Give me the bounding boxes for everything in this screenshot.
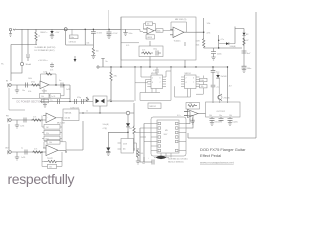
wire bbd out — [184, 112, 193, 129]
DC power jack J1 — [9, 28, 16, 36]
svg-text:16 16V: 16 16V — [97, 33, 103, 35]
svg-text:100n(B): 100n(B) — [103, 124, 109, 126]
wire 9V rail2 — [99, 66, 228, 68]
svg-text:4.9k: 4.9k — [28, 91, 31, 93]
svg-text:OUT 9V2: OUT 9V2 — [217, 111, 226, 113]
resistor R7 bbd in — [129, 125, 135, 151]
capacitor C10 1u/35 — [20, 118, 26, 128]
wire box edge drop — [120, 17, 122, 67]
diode D1 1N4007 — [40, 29, 60, 38]
svg-text:4.7k: 4.7k — [207, 33, 211, 35]
op-amp U2a — [143, 28, 154, 35]
svg-text:100n: 100n — [129, 33, 133, 35]
svg-text:100n: 100n — [217, 54, 221, 56]
feedback wire U2b — [171, 22, 187, 32]
svg-text:3007: 3007 — [164, 134, 168, 136]
feedback stack U9 — [42, 152, 62, 169]
wire lfo left branch — [108, 132, 128, 148]
svg-text:1k: 1k — [38, 36, 40, 38]
wire clock feed upper — [121, 29, 143, 31]
wire lfo branch — [196, 18, 204, 39]
svg-text:47k: 47k — [114, 76, 117, 78]
svg-text:470k: 470k — [31, 82, 35, 84]
svg-text:1u0: 1u0 — [142, 163, 145, 165]
bbd section box — [151, 117, 186, 156]
op-amp U1a input amp — [40, 81, 49, 92]
feedback resistors stack U1b — [42, 116, 62, 141]
wire right drop 4k7 — [227, 66, 232, 103]
feedback boxes under U1a — [40, 85, 65, 103]
wire output row — [198, 113, 206, 115]
wire right outer — [255, 12, 257, 138]
wire adapter stub faint — [108, 10, 110, 29]
voltage regulator U5 78L05 — [66, 29, 78, 45]
node switch circle — [64, 28, 67, 31]
svg-text:Effect Pedal: Effect Pedal — [200, 153, 221, 158]
wire drop x85 — [85, 29, 90, 45]
svg-text:500R BIAS (CLOCK BAL): 500R BIAS (CLOCK BAL) — [168, 158, 188, 161]
svg-text:SAD512D (MN3205): SAD512D (MN3205) — [168, 160, 184, 163]
resistor R3 10k box — [146, 22, 153, 26]
capacitor C4 16V — [107, 29, 119, 39]
capacitor C12 — [148, 158, 154, 165]
svg-text:+: + — [47, 121, 48, 123]
wire pot to out row — [66, 121, 83, 150]
svg-text:MN 3101 (X): MN 3101 (X) — [175, 19, 187, 21]
capacitor C11 4.7u — [153, 67, 159, 75]
feedback loop U1a — [41, 71, 57, 85]
diode D9 to ground — [106, 148, 110, 156]
wire mod column — [218, 35, 224, 49]
wire mix row — [79, 111, 126, 114]
pin label boxes right of U4 — [196, 76, 207, 95]
svg-text:4u7: 4u7 — [247, 53, 251, 55]
lfo amp box — [118, 139, 137, 158]
svg-text:= 16V 470u +: = 16V 470u + — [38, 60, 48, 62]
svg-text:10k: 10k — [209, 115, 212, 117]
capacitor C6 10n — [22, 83, 28, 93]
wire divider underbus — [140, 67, 191, 100]
node rail junctions — [110, 66, 196, 67]
resistor R1 1k — [35, 29, 40, 44]
svg-text:1u(63): 1u(63) — [233, 122, 238, 124]
svg-text:4.7u: 4.7u — [216, 72, 219, 74]
svg-text:22k: 22k — [46, 133, 49, 135]
wire lfo row — [204, 47, 242, 49]
ground bottom left bbd — [136, 161, 145, 165]
op-amp U8 output — [184, 110, 198, 122]
svg-text:FB: FB — [6, 116, 9, 118]
input jack J2 — [6, 81, 11, 88]
svg-text:MN3101: MN3101 — [151, 73, 157, 75]
node dots signal rows — [41, 84, 111, 152]
pot wiper circle — [126, 111, 134, 115]
capacitor C14 — [242, 51, 252, 55]
svg-text:4: 4 — [152, 82, 153, 84]
svg-text:100k: 100k — [28, 78, 32, 80]
wire diode to mix — [99, 106, 101, 113]
svg-text:1.5k: 1.5k — [207, 23, 211, 25]
svg-text:2: 2 — [186, 78, 187, 80]
wire fuse branch — [11, 29, 22, 73]
labels right of clock box — [207, 23, 211, 35]
svg-text:10k: 10k — [129, 128, 132, 130]
svg-text:10k: 10k — [229, 115, 232, 117]
wire bottom clock bus — [140, 157, 152, 162]
IC U4 divider MN3101 — [181, 73, 200, 88]
ground input jack — [15, 85, 19, 93]
wire row2 — [9, 120, 46, 150]
capacitor C20 — [21, 148, 27, 160]
svg-text:1u/35: 1u/35 — [66, 89, 70, 91]
svg-text:10k: 10k — [201, 86, 204, 88]
svg-text:BR: BR — [246, 34, 249, 36]
svg-text:+: + — [148, 158, 149, 160]
svg-text:4: 4 — [186, 82, 187, 84]
wire bbd right drop — [187, 133, 189, 138]
capacitor C8 1u — [59, 80, 63, 88]
svg-text:MANUAL: MANUAL — [65, 112, 72, 115]
capacitor C3 16V — [91, 29, 103, 48]
label box under U2a — [146, 35, 155, 39]
svg-text:1u/35: 1u/35 — [21, 157, 25, 159]
capacitor C16 4.7u column — [211, 66, 220, 103]
resistor R10 47 — [243, 38, 250, 45]
9v tap — [101, 59, 107, 68]
LED D7 — [243, 29, 250, 37]
svg-text:-: - — [174, 30, 175, 32]
wire bbd bottom pins — [161, 153, 171, 158]
svg-text:470p: 470p — [77, 97, 81, 99]
resistor R5 47k — [110, 67, 117, 101]
svg-text:100k(A): 100k(A) — [230, 45, 236, 48]
feedback jack J2 — [6, 116, 11, 123]
feedback R12 output amp — [186, 103, 200, 110]
BBD pin stubs left — [151, 124, 157, 151]
capacitor C9 470p — [70, 97, 89, 110]
ground on clock line — [123, 29, 132, 35]
svg-text:DC POWER SECTION: DC POWER SECTION — [17, 100, 43, 103]
svg-text:4.7(F): 4.7(F) — [103, 128, 108, 130]
svg-text:100n: 100n — [247, 68, 251, 70]
wire clock feeds down — [140, 124, 144, 163]
svg-text:6: 6 — [160, 78, 161, 80]
oscillator sub-box — [139, 46, 163, 57]
svg-text:1u/35: 1u/35 — [20, 126, 24, 128]
svg-text:9V+: 9V+ — [1, 64, 4, 66]
svg-text:LM358: LM358 — [147, 37, 152, 39]
svg-text:MC1458: MC1458 — [57, 123, 65, 125]
label 100n(B) — [103, 124, 109, 130]
diode D5 — [126, 123, 130, 138]
svg-text:100p: 100p — [153, 49, 157, 51]
wire led branch — [235, 27, 244, 44]
ground output amp — [191, 118, 195, 125]
diode pair D3 D4 — [84, 96, 111, 106]
wire reg row — [66, 44, 94, 46]
wire clock feed lower — [121, 43, 139, 47]
BBD pin stubs right — [179, 124, 186, 151]
capacitor C1 470u branch — [26, 29, 30, 61]
svg-text:4.7k: 4.7k — [50, 70, 53, 72]
svg-text:10n: 10n — [22, 90, 25, 92]
transistor Q1 — [218, 94, 230, 103]
resistor R14 470k — [31, 82, 40, 87]
output jack J4 — [5, 148, 11, 155]
svg-text:4558: 4558 — [123, 144, 127, 146]
svg-text:TL072: TL072 — [47, 158, 54, 160]
svg-text:1u+: 1u+ — [50, 100, 53, 102]
annotation text block — [35, 47, 56, 52]
svg-text:10k: 10k — [147, 24, 150, 26]
wire bottom outer — [188, 137, 256, 139]
svg-text:100n: 100n — [70, 37, 74, 39]
clock section box — [121, 17, 196, 60]
svg-text:6: 6 — [193, 78, 194, 80]
ground out jack — [15, 152, 19, 160]
feedback box above U9 — [44, 140, 66, 153]
ground jack J2 — [15, 120, 19, 128]
wire into divider left — [135, 67, 147, 101]
svg-text:-: - — [47, 117, 48, 119]
capacitor C1b 470u 16V — [38, 60, 54, 72]
svg-text:2: 2 — [152, 78, 153, 80]
resistor R6 4.7k — [31, 117, 43, 122]
svg-text:1u/35: 1u/35 — [43, 71, 47, 73]
svg-text:10k: 10k — [41, 96, 44, 98]
svg-text:10n: 10n — [219, 115, 222, 117]
resistor R2 100 — [91, 48, 98, 59]
svg-text:1k: 1k — [43, 101, 45, 103]
wire clock to divider — [149, 41, 151, 67]
power section boundary — [9, 88, 70, 110]
wire +9V rail — [16, 28, 122, 30]
wire output jack row — [12, 151, 46, 153]
svg-text:DOD FX75 Flanger Guitar: DOD FX75 Flanger Guitar — [200, 147, 246, 152]
svg-text:TL062: TL062 — [42, 90, 49, 92]
svg-text:1N4148: 1N4148 — [221, 76, 227, 78]
svg-text:4k7: 4k7 — [229, 86, 232, 88]
svg-text:4.7k: 4.7k — [142, 50, 145, 52]
svg-text:MN3102: MN3102 — [150, 106, 156, 108]
svg-text:30mA: 30mA — [26, 63, 32, 66]
svg-text:10k: 10k — [189, 103, 192, 105]
wire row2 link down — [61, 118, 63, 142]
op-amp U2b — [170, 27, 184, 42]
svg-text:2SC945: 2SC945 — [224, 98, 230, 100]
svg-text:4.7u: 4.7u — [153, 70, 156, 72]
footer text respectfully — [8, 171, 75, 187]
wire mid row right — [107, 100, 134, 102]
wire input row — [12, 84, 40, 86]
svg-text:7: 7 — [160, 82, 161, 84]
svg-text:1k: 1k — [86, 111, 88, 113]
capacitor C13 100n — [211, 48, 221, 60]
svg-text:1u 35: 1u 35 — [51, 96, 55, 98]
svg-text:(B): (B) — [123, 149, 126, 151]
node out — [55, 84, 56, 85]
svg-text:+ 16V: + 16V — [55, 32, 60, 34]
svg-text:MN3101: MN3101 — [185, 73, 191, 75]
svg-text:10k: 10k — [49, 142, 52, 144]
bias trimmer blob — [154, 156, 169, 160]
diode D6 horizontal — [219, 42, 236, 48]
svg-text:+: + — [174, 36, 175, 38]
svg-text:4.7n: 4.7n — [221, 39, 224, 41]
resistor R9 speed — [196, 39, 205, 48]
capacitor C19 out — [228, 117, 238, 126]
wire clock out — [184, 31, 196, 33]
svg-text:9v: 9v — [106, 61, 108, 63]
wire led column — [243, 36, 245, 66]
IC U3 divider MN3101 — [147, 73, 166, 88]
output box — [206, 102, 241, 117]
wire bbd feed lines — [134, 124, 151, 142]
svg-text:IN: IN — [6, 81, 9, 83]
boxed 1k on mid row — [42, 99, 60, 108]
svg-text:50k (B): 50k (B) — [65, 117, 71, 119]
resistor R13 4.7k — [32, 149, 43, 154]
pot box manual — [56, 109, 79, 121]
wire vref out row — [49, 84, 70, 86]
capacitor C15 led col — [242, 66, 252, 72]
svg-text:50k(B): 50k(B) — [84, 100, 89, 102]
resistor R4 100k — [154, 29, 173, 33]
feedback wire U2a — [144, 24, 156, 31]
labels left of op-amp — [28, 78, 32, 93]
svg-text:460k: 460k — [196, 45, 200, 47]
wire pot drop — [127, 115, 129, 123]
svg-text:MN: MN — [165, 130, 168, 132]
svg-text:4.7k: 4.7k — [33, 117, 36, 119]
svg-text:1u: 1u — [59, 80, 61, 82]
label box MN3102 — [148, 103, 161, 109]
svg-text:4.7k: 4.7k — [126, 45, 129, 47]
plus terminal — [96, 65, 100, 69]
svg-text:www.moosapotamus.net: www.moosapotamus.net — [200, 160, 234, 164]
svg-text:10k: 10k — [49, 167, 52, 169]
svg-text:+1u: +1u — [216, 87, 219, 89]
svg-text:100: 100 — [96, 51, 99, 53]
svg-text:1u: 1u — [21, 148, 23, 150]
wire left return — [11, 45, 37, 82]
BBD IC U6 MN3007 — [157, 120, 179, 153]
svg-text:10k: 10k — [87, 43, 90, 45]
svg-text:100u(6.3): 100u(6.3) — [215, 122, 223, 124]
op-amp U9 mixer — [43, 145, 58, 160]
svg-text:+1 16V: +1 16V — [112, 33, 118, 35]
svg-text:4.7k: 4.7k — [34, 149, 37, 151]
svg-text:LM78L05: LM78L05 — [69, 41, 76, 43]
fuse F1 30mA — [1, 62, 31, 66]
svg-text:1N4007 =: 1N4007 = — [40, 32, 47, 34]
svg-text:1M: 1M — [46, 127, 49, 129]
capacitor C18 out — [219, 117, 224, 122]
svg-text:4.7u: 4.7u — [177, 115, 180, 117]
wire mid row — [40, 101, 93, 103]
wire clock to divider 2 — [184, 42, 186, 67]
op-amp U1b — [43, 113, 65, 125]
svg-text:7: 7 — [193, 82, 194, 84]
ground arrow stub — [74, 56, 77, 62]
wire bbd input — [133, 103, 135, 125]
diode D8 — [216, 73, 226, 95]
svg-text:2x FEB30 B1 (SUP 9V): 2x FEB30 B1 (SUP 9V) — [35, 47, 56, 49]
svg-text:TL022C: TL022C — [174, 40, 182, 42]
svg-text:100R: 100R — [196, 40, 201, 42]
svg-text:1k5: 1k5 — [141, 153, 144, 155]
resistor R8 — [137, 148, 143, 161]
svg-text:100k: 100k — [157, 31, 161, 33]
svg-text:47: 47 — [246, 40, 249, 42]
capacitor C17 out — [210, 117, 223, 126]
wire mixer out — [58, 149, 66, 151]
wire vref drop — [66, 85, 70, 102]
svg-text:DC POWER BY (SLP): DC POWER BY (SLP) — [35, 50, 55, 52]
